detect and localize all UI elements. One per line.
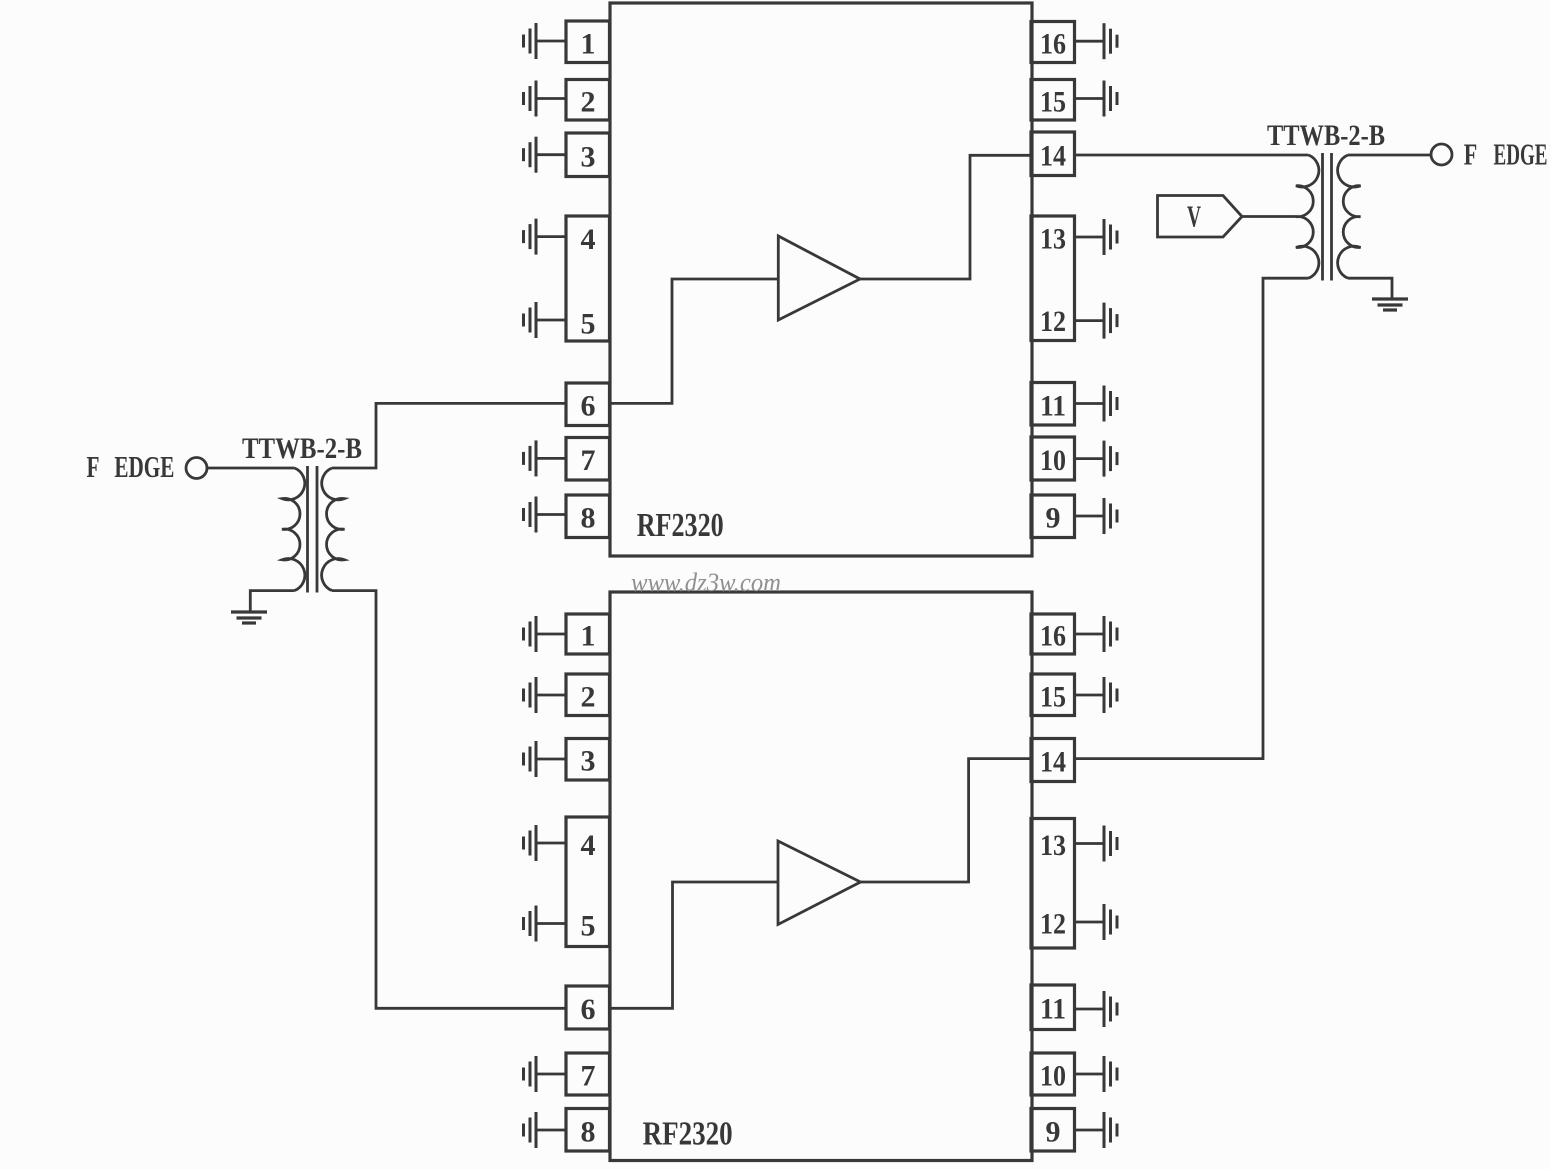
svg-text:2: 2 <box>581 86 596 119</box>
pins 4/5 (U2) shared box <box>566 817 610 947</box>
pin 6 (U1) <box>566 383 610 426</box>
svg-text:7: 7 <box>581 444 596 477</box>
svg-text:15: 15 <box>1040 681 1066 714</box>
wire amplifier output to U1 pin14 <box>860 155 1031 279</box>
pin 9 (U2) <box>1031 1109 1075 1152</box>
ground below T1 primary <box>231 612 267 623</box>
wire F EDGE terminal to T1 primary top <box>207 467 295 470</box>
svg-text:9: 9 <box>1046 502 1061 535</box>
amplifier triangle inside U1 <box>778 236 860 320</box>
svg-text:10: 10 <box>1040 444 1066 477</box>
svg-text:6: 6 <box>581 993 596 1026</box>
pin 16 (U2) <box>1031 614 1075 654</box>
pin 2 (U1) <box>566 80 610 121</box>
svg-text:7: 7 <box>581 1060 596 1093</box>
op-amp IC U1 RF2320 body <box>610 3 1032 556</box>
wire T1 secondary top to U1 pin6 <box>332 403 566 468</box>
svg-text:TTWB-2-B: TTWB-2-B <box>242 432 362 465</box>
pins 13/12 (U2) shared box <box>1031 819 1075 949</box>
output terminal circle (F EDGE) <box>1431 144 1452 165</box>
pin 1 (U1) <box>566 21 610 63</box>
pin 16 (U1) <box>1031 22 1075 63</box>
wire U1 pin6 to amplifier input <box>610 279 779 403</box>
pin 10 (U1) <box>1031 437 1075 480</box>
ground at U2 pin 2 <box>524 677 567 713</box>
svg-text:F: F <box>1464 137 1478 172</box>
svg-text:2: 2 <box>581 681 596 714</box>
wire V tag to T2 center tap <box>1242 215 1296 218</box>
svg-text:EDGE: EDGE <box>1494 137 1548 172</box>
ground at U1 pin 11 <box>1074 386 1117 422</box>
svg-text:TTWB-2-B: TTWB-2-B <box>1267 119 1385 152</box>
pin 15 (U2) <box>1031 674 1075 716</box>
T2 core <box>1323 153 1332 281</box>
T1 core <box>308 466 318 593</box>
svg-text:15: 15 <box>1040 86 1066 119</box>
svg-text:4: 4 <box>581 829 596 862</box>
ground at U2 pin 16 <box>1074 616 1117 652</box>
svg-text:8: 8 <box>581 502 596 535</box>
node F EDGE output label <box>1464 137 1548 172</box>
wire T2 primary bottom to U2 pin14 <box>1075 278 1309 758</box>
wire T1 primary bottom to ground <box>250 591 294 611</box>
svg-text:RF2320: RF2320 <box>643 1116 733 1153</box>
pin 15 (U1) <box>1031 80 1075 121</box>
svg-text:11: 11 <box>1040 993 1066 1026</box>
pin 6 (U2) <box>566 986 610 1029</box>
wire U1 pin14 to T2 primary top <box>1075 154 1309 157</box>
pin 8 (U2) <box>566 1109 610 1152</box>
wire T2 secondary top to output terminal <box>1348 154 1431 157</box>
ground at U1 pin 5 <box>524 302 567 338</box>
ground at U2 pin 1 <box>524 616 567 652</box>
wire T2 secondary bottom to ground <box>1348 278 1392 297</box>
svg-text:1: 1 <box>581 27 596 60</box>
ground at U2 pin 12 <box>1074 904 1117 940</box>
ground at U2 pin 11 <box>1074 991 1117 1027</box>
pin 7 (U1) <box>566 438 610 481</box>
svg-text:1: 1 <box>581 620 596 653</box>
svg-text:16: 16 <box>1040 28 1066 61</box>
svg-text:12: 12 <box>1040 305 1066 338</box>
ground below T2 secondary <box>1372 299 1408 310</box>
ground at U1 pin 7 <box>524 440 567 476</box>
svg-text:www.dz3w.com: www.dz3w.com <box>631 568 781 597</box>
pin 3 (U2) <box>566 739 610 781</box>
ground at U2 pin 9 <box>1074 1112 1117 1148</box>
svg-text:11: 11 <box>1040 390 1066 423</box>
svg-text:3: 3 <box>581 141 596 174</box>
wire T1 secondary bottom to U2 pin6 <box>332 591 566 1009</box>
pin 9 (U1) <box>1031 495 1075 538</box>
pin 11 (U1) <box>1031 383 1075 426</box>
pin 14 (U1) <box>1031 132 1075 176</box>
svg-text:8: 8 <box>581 1116 596 1149</box>
pin 10 (U2) <box>1031 1053 1075 1095</box>
svg-text:3: 3 <box>581 745 596 778</box>
ground at U2 pin 3 <box>524 741 567 777</box>
svg-text:EDGE: EDGE <box>114 449 174 484</box>
svg-text:12: 12 <box>1040 908 1066 941</box>
ground at U1 pin 3 <box>524 137 567 173</box>
pins 13/12 (U1) shared box <box>1031 216 1075 341</box>
wire U2 pin6 to amplifier input <box>610 882 779 1008</box>
svg-text:14: 14 <box>1040 746 1066 779</box>
svg-text:5: 5 <box>581 910 596 943</box>
svg-text:9: 9 <box>1046 1116 1061 1149</box>
svg-text:13: 13 <box>1040 829 1066 862</box>
pin 8 (U1) <box>566 495 610 538</box>
pin 3 (U1) <box>566 133 610 177</box>
amplifier triangle inside U2 <box>778 841 861 925</box>
ground at U1 pin 16 <box>1074 23 1117 59</box>
ground at U2 pin 8 <box>524 1112 567 1148</box>
ground at U1 pin 13 <box>1074 219 1117 255</box>
svg-text:6: 6 <box>581 390 596 423</box>
ground at U2 pin 10 <box>1074 1056 1117 1092</box>
pins 4/5 (U1) shared box <box>566 216 610 341</box>
pin 14 (U2) <box>1031 739 1075 782</box>
op-amp IC U2 RF2320 body <box>610 592 1032 1161</box>
ground at U2 pin 15 <box>1074 677 1117 713</box>
svg-text:4: 4 <box>581 223 596 256</box>
ground at U2 pin 7 <box>524 1056 567 1092</box>
ground at U1 pin 8 <box>524 497 567 533</box>
T1 secondary winding (right) <box>322 468 345 591</box>
T1 primary winding (left) <box>282 468 305 591</box>
node F EDGE input label <box>87 449 175 484</box>
ground at U2 pin 13 <box>1074 826 1117 862</box>
ground at U1 pin 2 <box>524 81 567 117</box>
supply tag V <box>1158 196 1243 238</box>
pin 2 (U2) <box>566 674 610 716</box>
pin 1 (U2) <box>566 614 610 654</box>
ground at U1 pin 4 <box>524 219 567 255</box>
svg-text:V: V <box>1187 199 1201 234</box>
T2 primary winding (left, center-tapped) <box>1296 155 1319 278</box>
ground at U1 pin 15 <box>1074 81 1117 117</box>
ground at U2 pin 5 <box>524 906 567 942</box>
ground at U1 pin 10 <box>1074 441 1117 477</box>
pin 7 (U2) <box>566 1053 610 1095</box>
ground at U1 pin 12 <box>1074 303 1117 339</box>
ground at U1 pin 9 <box>1074 498 1117 534</box>
svg-text:10: 10 <box>1040 1060 1066 1093</box>
input terminal circle (F EDGE) <box>186 458 207 479</box>
pin 11 (U2) <box>1031 985 1075 1030</box>
svg-text:14: 14 <box>1040 140 1066 173</box>
svg-text:5: 5 <box>581 308 596 341</box>
wire amplifier output to U2 pin14 <box>861 759 1032 882</box>
svg-text:RF2320: RF2320 <box>637 507 724 544</box>
ground at U1 pin 1 <box>524 23 567 59</box>
svg-text:13: 13 <box>1040 223 1066 256</box>
svg-text:16: 16 <box>1040 620 1066 653</box>
T2 secondary winding (right) <box>1338 155 1361 278</box>
svg-text:F: F <box>87 449 100 484</box>
ground at U2 pin 4 <box>524 825 567 861</box>
